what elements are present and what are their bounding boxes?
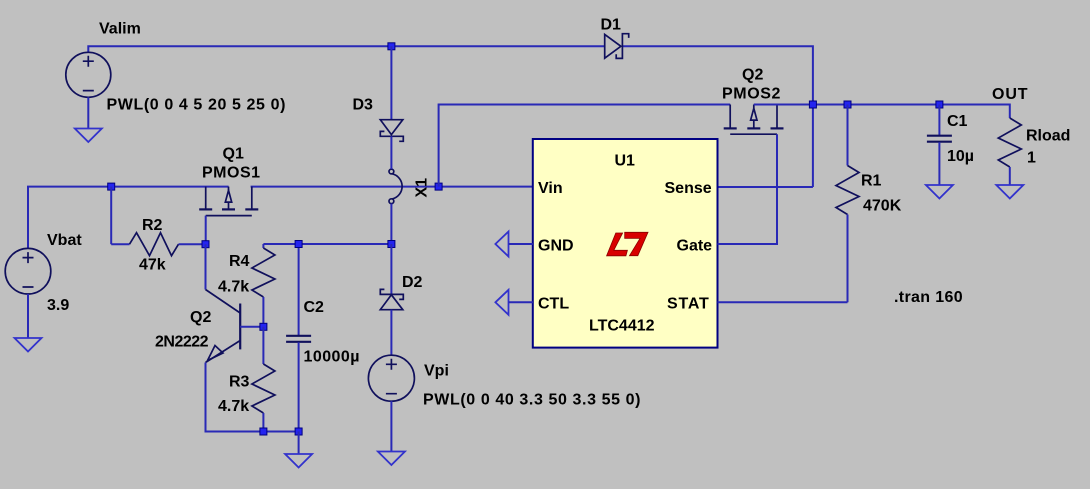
voltage source Vbat [5, 248, 51, 294]
chip U1 LTC4412 [533, 139, 718, 348]
svg-text:Rload: Rload [1026, 128, 1070, 145]
node junction D2 top [388, 241, 395, 248]
svg-text:PWL(0 0 40 3.3 50 3.3 55 0): PWL(0 0 40 3.3 50 3.3 55 0) [423, 392, 641, 409]
svg-text:CTL: CTL [538, 296, 569, 313]
resistor R1 [836, 105, 859, 303]
voltage source Vpi [368, 355, 414, 401]
svg-text:Q1: Q1 [223, 146, 244, 163]
wire Q1 drain to chip Vin through X1 [251, 186, 533, 188]
svg-text:LTC4412: LTC4412 [589, 318, 655, 335]
wire Vpi to ground [390, 401, 392, 451]
svg-text:10000µ: 10000µ [304, 349, 360, 366]
svg-text:3.9: 3.9 [47, 297, 69, 314]
transistor Q2 PMOS2 [724, 105, 784, 135]
node junction R3 bottom on rail [260, 428, 267, 435]
wire Q1 gate lead [205, 216, 207, 245]
svg-text:R3: R3 [229, 374, 250, 391]
svg-text:U1: U1 [615, 153, 636, 170]
svg-text:Vpi: Vpi [424, 363, 449, 380]
wire STAT line [718, 301, 848, 303]
wire to bottom ground [298, 432, 300, 455]
transistor Q2 2N2222 [206, 290, 241, 363]
svg-text:Vin: Vin [538, 180, 563, 197]
logo LT [607, 232, 648, 256]
port arrow GND [495, 232, 532, 257]
wire left rail Vbat to Q1 source/body [28, 187, 229, 249]
node junction C2 bottom / ground [295, 428, 302, 435]
wire D3 branch drop [390, 46, 392, 119]
svg-text:GND: GND [538, 238, 574, 255]
node junction Vin riser [435, 183, 442, 190]
wire R2 branch drop [110, 187, 112, 245]
svg-text:PWL(0 0 4 5 20 5 25 0): PWL(0 0 4 5 20 5 25 0) [107, 97, 287, 114]
svg-text:Q2: Q2 [742, 67, 763, 84]
wire collector lead of Q2 npn [205, 244, 207, 289]
svg-text:Valim: Valim [99, 21, 141, 38]
voltage source Valim [66, 52, 111, 97]
diode D3 [380, 120, 403, 142]
wire Valim to ground [87, 97, 89, 128]
svg-text:D2: D2 [402, 274, 423, 291]
resistor R3 [252, 327, 275, 432]
capacitor C1 [927, 105, 952, 186]
wire rail from R4 top to X1 bottom [263, 243, 391, 245]
ground below Vpi [378, 452, 405, 466]
svg-text:4.7k: 4.7k [218, 398, 249, 415]
port arrow CTL [495, 290, 532, 315]
svg-text:R4: R4 [229, 253, 250, 270]
svg-text:10µ: 10µ [947, 148, 974, 165]
diode D2 [380, 244, 403, 355]
svg-text:C1: C1 [947, 113, 968, 130]
node junction C1 top [936, 101, 943, 108]
svg-text:OUT: OUT [992, 86, 1028, 103]
node junction C2 top [295, 241, 302, 248]
symbol X1 crossing [389, 136, 402, 244]
svg-text:47k: 47k [139, 257, 166, 274]
wire from D1 cathode to right corner down to Sense row [622, 46, 813, 187]
diode D1 [605, 34, 629, 59]
svg-text:470K: 470K [863, 198, 902, 215]
node junction at R2 branch [108, 183, 115, 190]
svg-text:Vbat: Vbat [47, 232, 82, 249]
transistor Q1 PMOS1 [199, 187, 258, 216]
svg-text:R2: R2 [142, 217, 163, 234]
ground below Rload [996, 185, 1023, 199]
wire emitter down to bottom rail [206, 363, 299, 432]
svg-text:STAT: STAT [667, 296, 710, 313]
resistor R2 [111, 233, 205, 256]
svg-text:1: 1 [1027, 150, 1036, 167]
svg-text:PMOS1: PMOS1 [202, 165, 261, 182]
svg-text:R1: R1 [861, 173, 882, 190]
ground below Vbat [15, 338, 42, 352]
svg-text:2N2222: 2N2222 [155, 334, 209, 351]
wire top rail from Valim to D1 anode [88, 46, 604, 52]
svg-text:Gate: Gate [677, 238, 713, 255]
wire Vbat to ground [27, 294, 29, 338]
svg-text:Sense: Sense [665, 180, 712, 197]
svg-text:PMOS2: PMOS2 [722, 86, 781, 103]
wire base lead to R4/R3 node [240, 326, 263, 328]
wire Sense pin line [718, 186, 813, 188]
ground below C1 [926, 185, 953, 199]
svg-text:C2: C2 [304, 299, 325, 316]
svg-text:.tran 160: .tran 160 [894, 289, 963, 306]
svg-text:D3: D3 [353, 97, 374, 114]
node junction R2/gate/collector [202, 241, 209, 248]
ground below Valim [75, 129, 102, 143]
wire riser from Vin line up to OUT rail [439, 105, 731, 187]
svg-text:4.7k: 4.7k [218, 278, 249, 295]
capacitor C2 [286, 244, 311, 432]
node junction on top rail at D3 branch [388, 43, 395, 50]
svg-text:Q2: Q2 [190, 309, 211, 326]
resistor Rload [998, 118, 1021, 185]
ground bottom center [285, 454, 312, 468]
resistor R4 [252, 244, 275, 327]
node junction R1 top [844, 101, 851, 108]
wire OUT rail right part [754, 105, 1010, 119]
node junction D1 riser x OUT rail [809, 101, 816, 108]
svg-text:X1: X1 [414, 178, 431, 198]
svg-text:D1: D1 [601, 17, 622, 34]
node junction base/R4/R3 [260, 323, 267, 330]
wire Q2 gate to chip Gate pin [718, 134, 778, 244]
